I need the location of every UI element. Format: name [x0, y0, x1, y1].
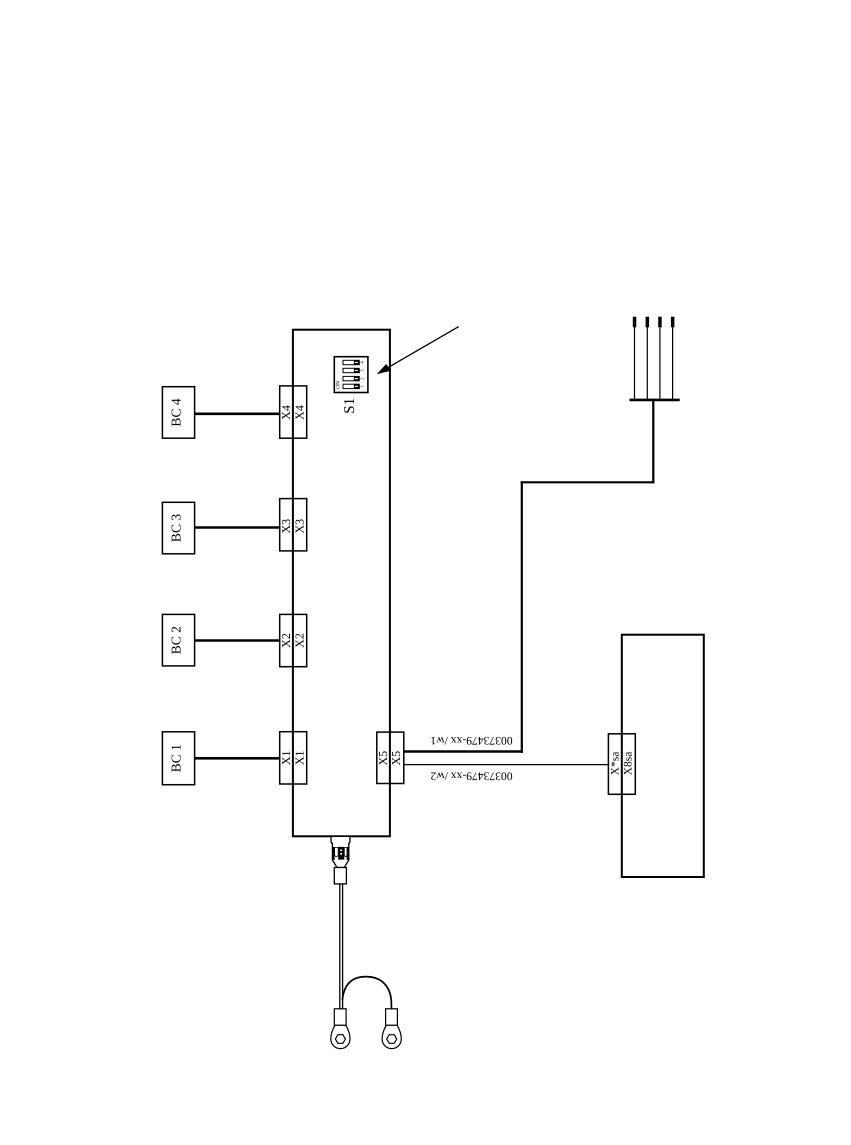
earth cable down [340, 884, 343, 1009]
BC 1 box [162, 732, 194, 785]
device box (right) [622, 635, 704, 877]
svg-text:X1: X1 [293, 750, 307, 765]
svg-text:X5: X5 [389, 751, 403, 766]
svg-text:BC 4: BC 4 [169, 398, 184, 426]
svg-text:X1: X1 [279, 750, 293, 765]
arrow pointing to S1 [377, 327, 459, 375]
ring terminal left [331, 1009, 350, 1049]
svg-text:ON: ON [336, 381, 342, 389]
ring terminal right [382, 1009, 401, 1049]
svg-text:X3: X3 [279, 519, 293, 534]
control unit main box [293, 330, 390, 837]
svg-text:X2: X2 [293, 633, 307, 648]
svg-text:X8sa: X8sa [623, 752, 635, 776]
connector X1 [279, 732, 307, 784]
svg-text:BC 3: BC 3 [169, 514, 184, 542]
svg-text:BC 2: BC 2 [169, 626, 184, 654]
wire BC4 to X4 [195, 412, 281, 415]
DIP switch S1 [334, 357, 368, 393]
svg-text:X*sa: X*sa [609, 752, 621, 776]
svg-text:X2: X2 [279, 633, 293, 648]
svg-text:00373479-xx /w1: 00373479-xx /w1 [430, 734, 512, 747]
connector X3 [279, 499, 307, 551]
svg-text:X4: X4 [293, 405, 307, 420]
svg-text:S1: S1 [342, 398, 358, 414]
BC 4 box [162, 387, 194, 439]
4-pin connector (top right) [630, 317, 680, 400]
svg-text:X4: X4 [279, 405, 293, 420]
connector X4 [279, 386, 307, 438]
cable gland under control unit [331, 836, 350, 884]
wire w2 from X5 to X*sa [404, 764, 609, 766]
wire BC3 to X3 [195, 526, 281, 529]
BC 2 box [162, 614, 194, 666]
wire BC1 to X1 [195, 757, 281, 760]
connector X2 [279, 614, 307, 666]
connector X5 [376, 732, 404, 783]
svg-text:X3: X3 [293, 519, 307, 534]
wire w1 from X5 to 4-pin connector [404, 399, 655, 753]
svg-text:X5: X5 [376, 751, 390, 766]
BC 3 box [162, 502, 194, 554]
svg-text:BC 1: BC 1 [169, 744, 184, 772]
svg-text:00373479-xx /w2: 00373479-xx /w2 [430, 769, 512, 782]
cable loop to right terminal [342, 977, 391, 1009]
wire BC2 to X2 [195, 639, 281, 642]
connector X*sa / X8sa [608, 734, 635, 795]
